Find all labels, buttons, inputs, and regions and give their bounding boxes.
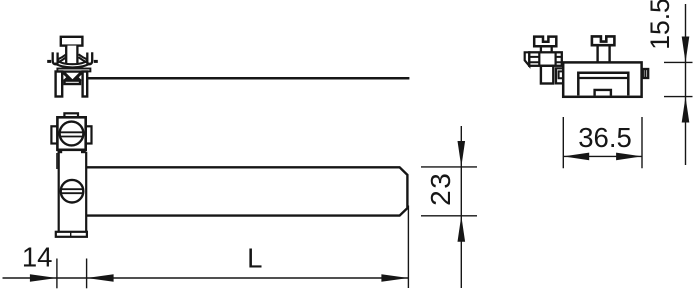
front view: main screw shaft <box>598 45 610 62</box>
dimension 36.5: extension lines <box>563 117 642 168</box>
top view: right foot <box>81 150 86 153</box>
dimension 36.5: left arrow <box>563 153 589 161</box>
dimension 15.5: top arrow <box>682 37 690 63</box>
top view: body edge line <box>56 153 58 169</box>
dimension 14 and L: dimension line <box>3 277 409 279</box>
side view: saddle arcs <box>55 61 90 68</box>
side view: screw shaft <box>66 46 77 63</box>
top view: left side tab <box>51 126 57 143</box>
side view: left leg <box>56 72 63 97</box>
dimension 36.5: right arrow <box>616 153 642 161</box>
dimension 23: top arrow <box>458 141 466 167</box>
dimension L: left arrow <box>87 274 114 282</box>
front view: left tab of body <box>556 68 563 83</box>
dimension L: right extension line <box>407 206 409 289</box>
svg-text:L: L <box>247 243 262 274</box>
svg-text:14: 14 <box>22 242 53 273</box>
svg-text:36.5: 36.5 <box>578 122 632 153</box>
dimension 23: extension lines <box>421 167 477 216</box>
dimension 36.5: dimension line <box>563 155 642 157</box>
top view: busbar outline <box>86 167 407 215</box>
top view: body <box>59 152 86 232</box>
top view: head block <box>57 117 85 150</box>
front view: left end cap <box>525 52 530 66</box>
side view: left ear <box>53 52 58 64</box>
side view: curved spring bands right <box>79 54 88 63</box>
side view: strap end stub left <box>47 60 51 63</box>
dimension 14: left arrow <box>30 274 57 282</box>
side view: top rail <box>57 69 90 72</box>
dimension 15.5: bottom arrow <box>682 97 690 123</box>
front view: left screw head with slot <box>534 37 556 47</box>
dimension 14: extension tick left <box>56 259 58 289</box>
svg-text:23: 23 <box>425 172 456 206</box>
side view: screw head <box>61 37 83 46</box>
top view: base plate <box>56 232 87 237</box>
top view: screw 1 <box>60 122 84 146</box>
dimension 14: extension tick right <box>86 259 88 289</box>
front view: main screw head with slot <box>592 36 615 45</box>
front view: left screw shaft lower <box>541 66 553 84</box>
front view: main body <box>563 62 641 96</box>
side view: lower clamp plate <box>65 81 81 84</box>
svg-text:15.5: 15.5 <box>645 0 675 50</box>
top view: right side tab <box>86 126 92 143</box>
dimension 23: dimension line <box>460 126 462 288</box>
front view: right tab <box>643 69 648 78</box>
side view: right leg <box>83 72 88 97</box>
front view: clamp nut band <box>529 52 562 66</box>
dimension 15.5: extension ticks <box>664 62 693 96</box>
dimension 15.5: dimension line <box>685 4 687 165</box>
side view: X brace block with white V notch <box>63 72 82 81</box>
top view: left foot <box>58 150 63 153</box>
dimension 23: bottom arrow <box>458 216 466 242</box>
dimension L: right arrow <box>381 274 408 282</box>
side view: strap end stub right <box>94 60 98 63</box>
side view: curved spring bands left <box>57 54 66 63</box>
top view: top tab <box>64 113 78 117</box>
side view: strap line <box>88 77 409 80</box>
top view: screw 2 <box>61 180 84 203</box>
front view: bottom notch <box>595 90 611 96</box>
side view: right ear <box>87 52 92 64</box>
front view: left screw neck <box>541 46 552 52</box>
front view: inner clamp plate <box>578 73 628 96</box>
